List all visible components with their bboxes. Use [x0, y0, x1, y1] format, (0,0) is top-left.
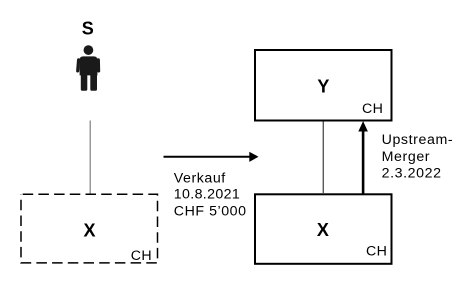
svg-text:2.3.2022: 2.3.2022 — [382, 166, 442, 182]
svg-text:CH: CH — [362, 101, 383, 117]
label Verkauf 10.8.2021 CHF 5'000 — [174, 170, 247, 219]
wire: S down to dashed box X — [89, 121, 91, 195]
company box Y — [255, 50, 392, 121]
svg-text:S: S — [82, 18, 94, 38]
svg-text:CH: CH — [366, 244, 387, 260]
svg-text:Upstream-: Upstream- — [382, 132, 454, 148]
svg-text:X: X — [317, 220, 329, 240]
svg-text:Verkauf: Verkauf — [174, 170, 226, 186]
svg-text:CHF 5’000: CHF 5’000 — [174, 203, 247, 219]
svg-text:10.8.2021: 10.8.2021 — [174, 187, 240, 203]
svg-text:Y: Y — [317, 77, 329, 97]
company box X (dashed, left) — [21, 194, 158, 263]
arrow: sale transfer (Verkauf) — [164, 152, 259, 162]
svg-text:Merger: Merger — [382, 149, 431, 165]
arrow: upstream merger X to Y — [358, 121, 368, 194]
label Upstream-Merger 2.3.2022 — [382, 132, 454, 182]
person icon S — [78, 45, 99, 90]
svg-text:CH: CH — [131, 248, 152, 264]
wire: Y down to X (right) — [322, 122, 324, 194]
company box X (right) — [255, 194, 392, 263]
svg-text:X: X — [83, 221, 95, 241]
